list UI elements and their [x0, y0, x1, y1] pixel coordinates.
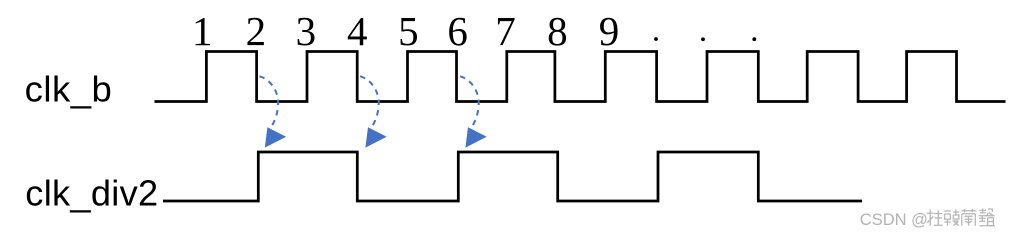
arrow 3 dashed arc (clk_b edge 6 to clk_div2 rise)	[460, 76, 479, 125]
svg-text:7: 7	[495, 8, 516, 54]
svg-text:3: 3	[296, 8, 317, 54]
edge number 2	[246, 8, 267, 54]
svg-text:8: 8	[547, 8, 568, 54]
edge number 5	[398, 8, 419, 54]
edge number 6	[447, 8, 468, 54]
arrow 3 head	[465, 127, 486, 147]
ellipsis dot 1	[654, 37, 658, 41]
edge number 4	[347, 8, 368, 54]
svg-text:clk_div2: clk_div2	[25, 173, 158, 214]
clk_div2 waveform	[163, 152, 862, 201]
watermark glyph 4 (馨)	[979, 209, 995, 226]
signal label clk_b	[25, 68, 113, 109]
watermark glyph 3 (蘭)	[961, 209, 976, 226]
svg-text:clk_b: clk_b	[25, 68, 113, 109]
edge number 8	[547, 8, 568, 54]
svg-text:2: 2	[246, 8, 267, 54]
watermark glyph 2 (馥)	[944, 209, 959, 225]
ellipsis dot 3	[752, 37, 756, 41]
arrow 2 dashed arc (clk_b edge 4 to clk_div2 fall)	[360, 76, 379, 125]
arrow 1 head	[265, 127, 286, 147]
edge number 7	[495, 8, 516, 54]
edge number 3	[296, 8, 317, 54]
arrow 1 dashed arc (clk_b edge 2 to clk_div2 rise)	[259, 76, 278, 125]
svg-text:5: 5	[398, 8, 419, 54]
watermark CSDN @	[860, 211, 928, 229]
signal label clk_div2	[25, 173, 158, 214]
clk_b waveform	[155, 52, 1006, 102]
arrow 2 head	[365, 127, 386, 147]
svg-text:1: 1	[192, 8, 213, 54]
svg-text:4: 4	[347, 8, 368, 54]
edge number 1	[192, 8, 213, 54]
svg-text:CSDN @: CSDN @	[860, 211, 928, 229]
svg-text:9: 9	[599, 8, 620, 54]
watermark glyph 1 (桂)	[927, 210, 943, 226]
svg-text:6: 6	[447, 8, 468, 54]
edge number 9	[599, 8, 620, 54]
ellipsis dot 2	[701, 37, 705, 41]
